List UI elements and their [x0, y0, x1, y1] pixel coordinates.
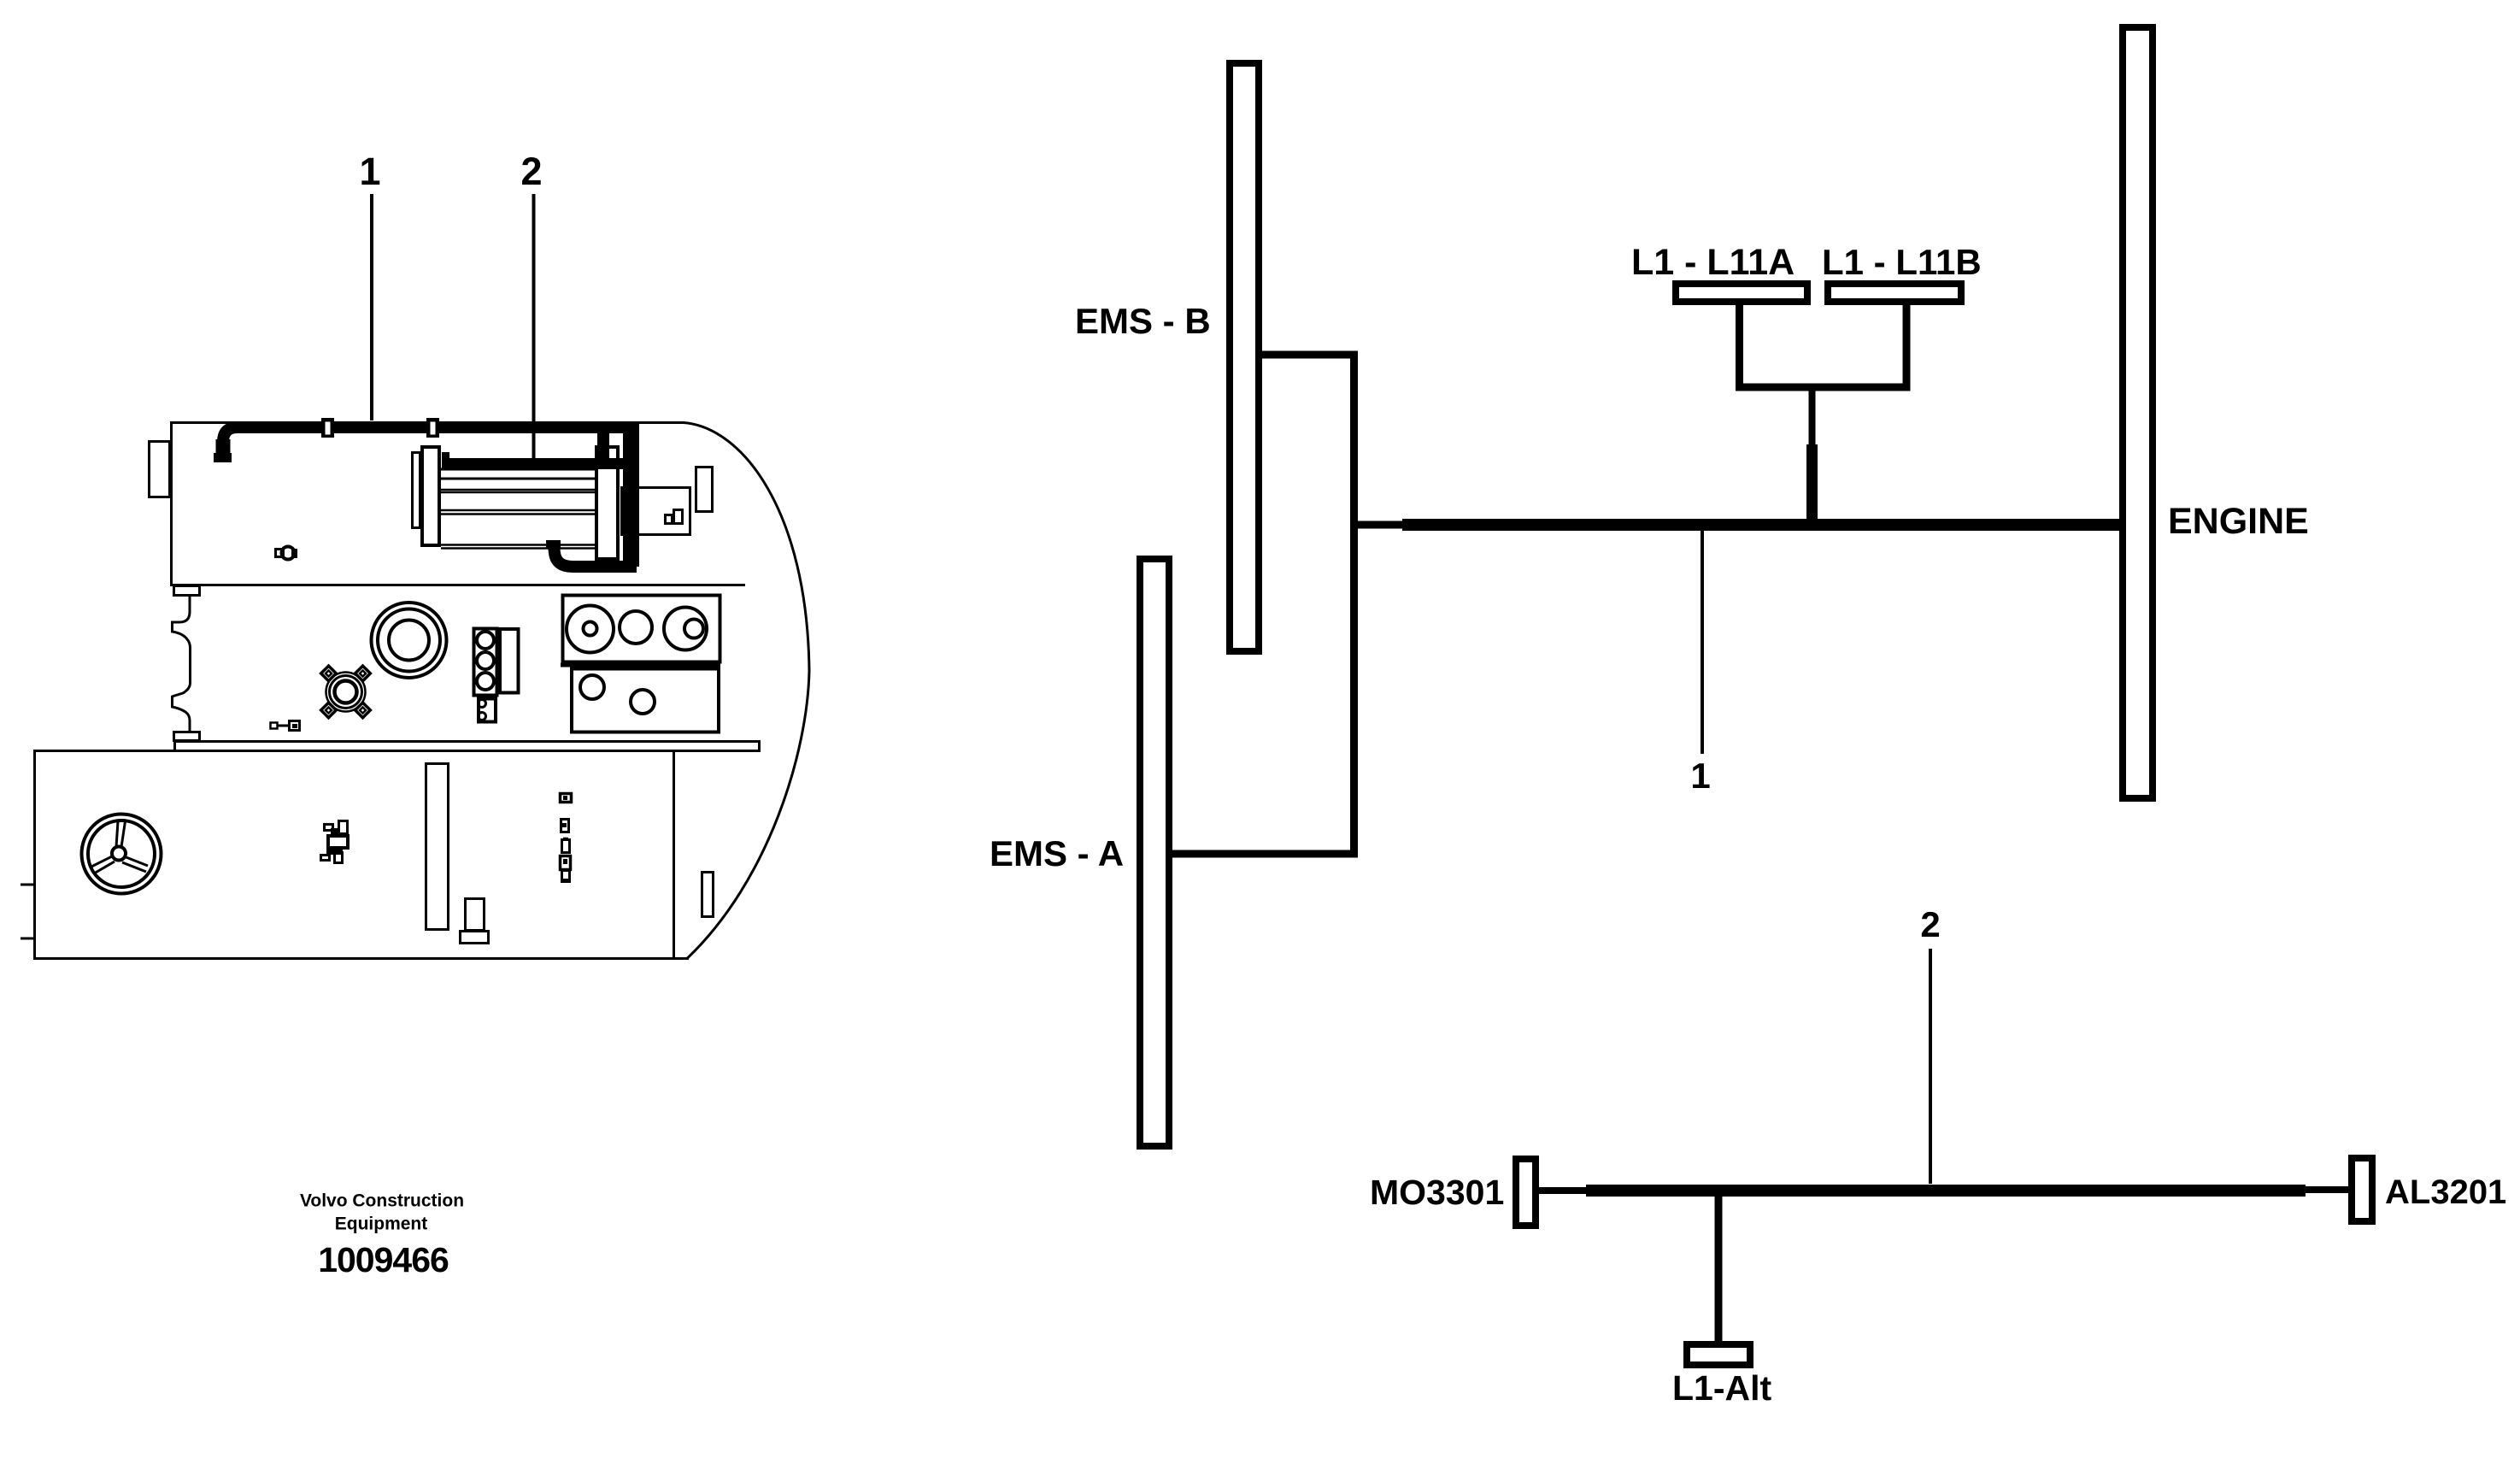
- engine panel B: [561, 665, 720, 732]
- step plate upper: [174, 586, 200, 596]
- fuse column: [561, 794, 572, 884]
- starter flange left: [422, 447, 439, 545]
- connector L1-Alt: [1687, 1344, 1750, 1365]
- left edge scallops: [173, 596, 191, 732]
- gear slot: [426, 764, 449, 930]
- solenoid box: [622, 488, 690, 535]
- engine panel A: [563, 596, 720, 662]
- wire EMS-B branch: [1262, 355, 1354, 854]
- leader line 2: [532, 194, 536, 462]
- harness clamp 2: [426, 418, 439, 438]
- svg-text:Equipment: Equipment: [335, 1214, 428, 1234]
- wire branch to L1-Alt: [1715, 1191, 1723, 1341]
- wire EMS-A branch: [1172, 850, 1358, 858]
- svg-text:AL3201: AL3201: [2385, 1173, 2506, 1211]
- ECU EMS-A block: [1140, 559, 1169, 1146]
- svg-text:1: 1: [1690, 756, 1710, 796]
- svg-text:L1 - L11B: L1 - L11B: [1822, 242, 1982, 282]
- cab floor outline: [35, 751, 690, 959]
- harness 1 hook: [546, 540, 637, 567]
- svg-text:MO3301: MO3301: [1370, 1173, 1504, 1212]
- connector AL3201: [2352, 1158, 2372, 1221]
- svg-text:2: 2: [1920, 904, 1940, 944]
- ECU EMS-B block: [1230, 63, 1259, 651]
- connector MO3301: [1516, 1159, 1536, 1226]
- wire stub AL3201: [2306, 1186, 2348, 1193]
- wire L1 stem thick: [1806, 444, 1818, 525]
- deck plate strip: [175, 742, 760, 751]
- harness 1 (thick): [214, 427, 633, 466]
- harness clamp 1: [321, 418, 334, 438]
- wire L1 stem thin: [1809, 387, 1816, 444]
- fitting bolt: [276, 547, 298, 560]
- wire trunk 1 thick: [1402, 519, 2119, 531]
- starter flange right: [596, 447, 618, 559]
- svg-text:EMS - A: EMS - A: [990, 833, 1124, 873]
- connector L1-L11B: [1828, 284, 1961, 302]
- wire L11A drop: [1736, 305, 1743, 391]
- lamp connector: [479, 699, 496, 722]
- wire trunk 1 thin: [1350, 521, 1402, 529]
- connector L1-L11A: [1676, 284, 1807, 302]
- machine front body curve: [684, 423, 809, 959]
- pump flange: [321, 666, 371, 718]
- connector pair mid deck: [271, 721, 300, 731]
- front bumper block: [150, 442, 170, 497]
- starter back plate: [413, 453, 420, 528]
- svg-text:L1 - L11A: L1 - L11A: [1631, 242, 1795, 283]
- steering wheel: [82, 815, 162, 894]
- leader line 1: [370, 194, 373, 420]
- side pocket: [702, 873, 714, 917]
- svg-text:L1-Alt: L1-Alt: [1672, 1368, 1772, 1408]
- wire stub MO3301: [1539, 1187, 1586, 1194]
- harness 1 vertical bundle: [623, 424, 639, 567]
- wire L11B drop: [1903, 305, 1911, 391]
- solenoid steps: [666, 515, 673, 524]
- bracket right: [696, 468, 713, 512]
- svg-text:1009466: 1009466: [318, 1240, 449, 1279]
- wire L1 joining bar: [1736, 384, 1911, 391]
- signal lamp block: [474, 629, 519, 696]
- leader line 2 (schematic): [1929, 949, 1932, 1184]
- step plate lower: [174, 732, 200, 741]
- machine engine box outline: [170, 421, 745, 585]
- ENGINE block: [2123, 27, 2153, 798]
- connector cluster: [321, 821, 349, 863]
- left tick marks: [21, 884, 34, 886]
- svg-text:Volvo Construction: Volvo Construction: [300, 1191, 464, 1211]
- svg-text:1: 1: [359, 150, 380, 193]
- svg-text:ENGINE: ENGINE: [2168, 501, 2309, 542]
- wire trunk 2 thick: [1586, 1185, 2306, 1197]
- svg-text:2: 2: [520, 150, 542, 193]
- leader line 1 (schematic): [1701, 531, 1704, 754]
- svg-text:EMS - B: EMS - B: [1075, 301, 1211, 341]
- harness 2 (inner bar): [442, 452, 631, 464]
- air cleaner: [372, 603, 447, 678]
- lever part: [466, 899, 485, 931]
- starter cylinder lines: [441, 469, 598, 549]
